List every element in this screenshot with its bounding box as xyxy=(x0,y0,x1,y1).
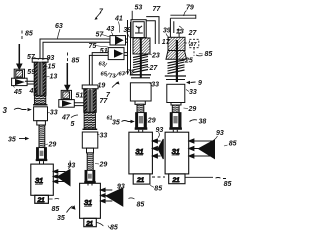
svg-text:29: 29 xyxy=(147,118,156,125)
svg-text:85: 85 xyxy=(154,186,162,193)
svg-text:85: 85 xyxy=(205,51,213,58)
svg-text:33: 33 xyxy=(100,133,108,140)
svg-text:19: 19 xyxy=(98,83,106,90)
svg-text:38: 38 xyxy=(199,119,207,126)
svg-text:59: 59 xyxy=(27,69,35,76)
svg-text:93: 93 xyxy=(117,184,125,191)
svg-text:13: 13 xyxy=(50,74,58,81)
svg-text:39: 39 xyxy=(123,27,131,34)
svg-text:13: 13 xyxy=(176,29,184,36)
svg-text:93: 93 xyxy=(47,55,55,62)
svg-text:85: 85 xyxy=(52,206,60,213)
svg-text:93: 93 xyxy=(68,163,76,170)
svg-text:31: 31 xyxy=(84,198,92,207)
svg-text:31: 31 xyxy=(135,147,143,156)
svg-text:29: 29 xyxy=(48,142,57,149)
svg-text:43: 43 xyxy=(106,26,115,33)
svg-text:85: 85 xyxy=(137,202,145,209)
svg-text:53: 53 xyxy=(135,5,143,12)
svg-text:67: 67 xyxy=(119,72,126,78)
svg-text:5: 5 xyxy=(71,121,75,128)
svg-text:31: 31 xyxy=(172,147,180,156)
svg-text:21: 21 xyxy=(37,197,46,204)
svg-text:25: 25 xyxy=(184,58,193,65)
svg-text:41: 41 xyxy=(114,16,123,23)
svg-text:23: 23 xyxy=(151,53,160,60)
svg-text:21: 21 xyxy=(85,220,93,227)
svg-text:41: 41 xyxy=(29,88,38,95)
svg-text:85: 85 xyxy=(224,181,232,188)
svg-text:85: 85 xyxy=(229,141,237,148)
svg-text:17: 17 xyxy=(162,39,171,46)
svg-text:3: 3 xyxy=(3,106,8,115)
svg-text:87: 87 xyxy=(190,42,197,48)
svg-text:31: 31 xyxy=(35,176,43,185)
svg-text:93: 93 xyxy=(156,127,164,134)
svg-text:47: 47 xyxy=(61,115,71,122)
svg-text:29: 29 xyxy=(99,162,108,169)
svg-text:9: 9 xyxy=(198,80,202,87)
svg-text:33: 33 xyxy=(189,89,197,96)
svg-text:63: 63 xyxy=(55,23,63,30)
svg-text:51: 51 xyxy=(76,93,84,100)
svg-text:65: 65 xyxy=(101,72,108,78)
svg-text:71: 71 xyxy=(127,70,133,76)
svg-text:15: 15 xyxy=(48,64,56,71)
svg-text:27: 27 xyxy=(149,65,159,72)
svg-text:93: 93 xyxy=(216,130,224,137)
svg-text:7: 7 xyxy=(99,9,104,16)
svg-text:35: 35 xyxy=(112,120,120,127)
svg-text:85: 85 xyxy=(110,225,118,232)
svg-text:21: 21 xyxy=(136,177,145,184)
svg-text:29: 29 xyxy=(188,106,197,113)
svg-text:33: 33 xyxy=(151,82,159,89)
svg-text:35: 35 xyxy=(8,137,16,144)
svg-text:85: 85 xyxy=(25,31,33,38)
svg-text:73: 73 xyxy=(109,74,116,80)
svg-text:27: 27 xyxy=(188,30,198,37)
svg-text:75: 75 xyxy=(89,43,97,50)
svg-text:33: 33 xyxy=(50,110,58,117)
svg-text:39: 39 xyxy=(163,28,171,35)
svg-text:79: 79 xyxy=(186,5,194,12)
svg-text:7: 7 xyxy=(106,92,111,99)
svg-text:35: 35 xyxy=(57,215,65,222)
svg-text:21: 21 xyxy=(172,177,181,184)
svg-text:51: 51 xyxy=(100,48,108,55)
svg-text:45: 45 xyxy=(13,89,22,96)
svg-text:85: 85 xyxy=(72,58,80,65)
svg-text:77: 77 xyxy=(100,98,109,105)
svg-text:61: 61 xyxy=(107,116,113,122)
svg-text:77: 77 xyxy=(153,6,162,13)
